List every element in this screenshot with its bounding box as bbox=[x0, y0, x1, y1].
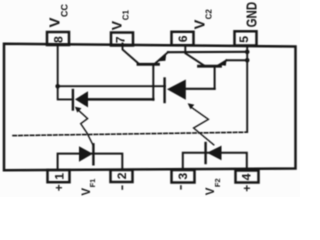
pin 3 number bbox=[176, 173, 190, 180]
svg-text:F2: F2 bbox=[213, 178, 222, 187]
label VCC bbox=[47, 4, 70, 28]
svg-text:V: V bbox=[193, 19, 209, 29]
LED D1 triangle bbox=[79, 146, 93, 162]
transistor Q1 base bar bbox=[138, 63, 159, 66]
transistor Q2 emitter bbox=[218, 60, 227, 65]
pin 4 number bbox=[240, 173, 254, 180]
wire VCC rail to photodiode D4 cathode bbox=[58, 85, 165, 87]
pin 6 number bbox=[176, 35, 190, 42]
shield dashed line bbox=[13, 132, 247, 135]
svg-text:1: 1 bbox=[52, 173, 66, 180]
node VCC junction dot bbox=[55, 84, 60, 89]
svg-text:+: + bbox=[52, 184, 66, 191]
photodiode D3 cathode bar bbox=[72, 90, 74, 110]
svg-text:+: + bbox=[240, 185, 254, 192]
svg-text:8: 8 bbox=[52, 36, 66, 43]
wire base lead Q2 bbox=[214, 66, 216, 89]
wire photodiode D4 anode to base Q2 bbox=[186, 88, 215, 90]
wire emitter Q1 to GND rail bbox=[168, 51, 247, 54]
pin 3 box bbox=[172, 170, 195, 183]
LED D2 triangle bbox=[207, 146, 222, 161]
wire photodiode D3 anode to base Q1 bbox=[88, 98, 154, 101]
photodiode D3 triangle bbox=[75, 91, 88, 107]
pin 2 box bbox=[111, 170, 133, 182]
svg-text:C2: C2 bbox=[205, 9, 214, 20]
wire pin6 to collector Q2 bbox=[185, 46, 204, 66]
node GND rail 2 dot bbox=[245, 58, 250, 63]
light arrow channel 2 bbox=[191, 107, 213, 145]
photodiode D4 cathode bar bbox=[163, 79, 165, 103]
transistor Q1 emitter bbox=[155, 52, 168, 63]
pin 7 box bbox=[111, 33, 133, 46]
label minus pin2 bbox=[121, 185, 123, 189]
wire base lead Q1 bbox=[152, 65, 154, 100]
svg-text:V: V bbox=[81, 188, 93, 196]
transistor Q2 emitter arrow bbox=[220, 60, 227, 66]
label VC2 bbox=[193, 9, 214, 30]
svg-text:C1: C1 bbox=[122, 10, 131, 21]
svg-text:5: 5 bbox=[237, 36, 251, 43]
svg-text:GND: GND bbox=[243, 2, 260, 28]
label VF2 bbox=[205, 178, 222, 195]
svg-text:V: V bbox=[47, 17, 64, 27]
svg-text:CC: CC bbox=[60, 4, 70, 17]
svg-text:3: 3 bbox=[176, 173, 190, 180]
pin 5 number bbox=[237, 36, 251, 43]
wire LED D1 loop pin1 to pin2 bbox=[58, 154, 123, 170]
label VC1 bbox=[109, 10, 131, 31]
pin 2 number bbox=[115, 172, 129, 179]
pin 8 number bbox=[52, 36, 66, 43]
light arrow channel 1 head bbox=[75, 107, 82, 113]
svg-text:V: V bbox=[109, 20, 125, 30]
transistor Q2 base bar bbox=[199, 65, 221, 68]
wire emitter Q2 to GND rail bbox=[227, 59, 248, 61]
wire pin8 to photodiode D3 cathode bbox=[58, 45, 71, 99]
pin 5 box bbox=[235, 31, 257, 45]
pin 7 number bbox=[113, 36, 127, 43]
LED D2 cathode bar bbox=[204, 143, 206, 163]
wire pin5 GND down to shield bbox=[246, 46, 248, 132]
LED D1 cathode bar bbox=[92, 144, 94, 164]
label GND bbox=[243, 2, 260, 28]
pin 4 box bbox=[236, 171, 259, 183]
svg-text:2: 2 bbox=[115, 172, 129, 179]
transistor Q1 emitter arrow bbox=[159, 54, 167, 62]
svg-text:4: 4 bbox=[240, 173, 254, 180]
wire pin7 to collector Q1 bbox=[123, 44, 139, 64]
svg-text:V: V bbox=[205, 187, 217, 195]
pin 8 box bbox=[47, 32, 69, 45]
label VF1 bbox=[81, 179, 97, 196]
svg-text:F1: F1 bbox=[88, 179, 97, 188]
node GND rail 1 dot bbox=[245, 50, 250, 55]
pin 6 box bbox=[172, 32, 194, 45]
label plus pin4 bbox=[240, 185, 254, 192]
light arrow channel 1 bbox=[79, 111, 94, 146]
label plus pin1 bbox=[52, 184, 66, 191]
svg-text:6: 6 bbox=[176, 35, 190, 42]
svg-text:7: 7 bbox=[113, 36, 127, 43]
package outline U1 bbox=[4, 44, 296, 171]
light arrow channel 2 head bbox=[188, 103, 195, 109]
pin 1 number bbox=[52, 173, 66, 180]
pin 1 box bbox=[48, 170, 70, 182]
label minus pin3 bbox=[180, 185, 182, 189]
wire LED D2 loop pin3 to pin4 bbox=[183, 153, 247, 170]
photodiode D4 triangle bbox=[167, 80, 186, 100]
